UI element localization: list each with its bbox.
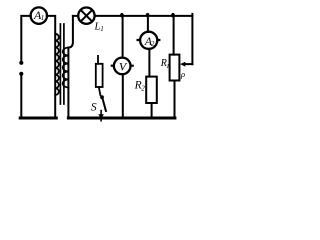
- fuse lead lower: [99, 87, 101, 95]
- wire V lower: [122, 74, 124, 118]
- svg-text:1: 1: [100, 25, 104, 33]
- switch S arrowhead: [98, 114, 104, 119]
- ammeter A1: [31, 7, 47, 23]
- wire R1 lower: [174, 81, 176, 119]
- wire right drop: [191, 14, 193, 64]
- fuse lead upper: [97, 56, 99, 64]
- wire left-top (terminal up to A1): [21, 16, 31, 61]
- svg-text:2: 2: [151, 40, 155, 48]
- fuse box: [96, 64, 103, 87]
- lamp L1: [78, 8, 94, 24]
- svg-text:S: S: [91, 101, 97, 113]
- transformer core: [59, 24, 61, 104]
- resistor R2: [146, 77, 157, 103]
- lamp L1 wire: [73, 15, 78, 17]
- svg-text:ρ: ρ: [180, 69, 185, 79]
- wiper arrowhead: [180, 62, 185, 67]
- wiper arrow shaft: [185, 63, 193, 65]
- switch S blade: [103, 99, 106, 111]
- node junction R1: [171, 13, 175, 18]
- switch S arrow shaft: [100, 111, 102, 121]
- wire V riser: [122, 16, 124, 58]
- terminal lower: [19, 72, 23, 76]
- wire R2 lower: [151, 103, 153, 118]
- ammeter A2 side nubs: [138, 39, 160, 41]
- svg-text:2: 2: [141, 85, 145, 93]
- transformer secondary coil lead + spine: [68, 16, 73, 118]
- terminal upper: [19, 61, 23, 65]
- wire A2 riser: [147, 16, 149, 32]
- transformer secondary coil: [63, 48, 69, 88]
- resistor R1: [170, 55, 180, 81]
- node junction A2: [146, 13, 150, 18]
- wire A2 to R2: [148, 49, 150, 77]
- voltmeter V side nubs: [112, 65, 133, 67]
- svg-text:1: 1: [41, 14, 45, 22]
- node junction V: [120, 13, 124, 18]
- voltmeter V: [114, 58, 131, 75]
- wire bottom right: [68, 117, 174, 120]
- wire bottom-left thick: [20, 117, 56, 120]
- transformer primary coil: [55, 34, 59, 95]
- wire R1 riser: [173, 16, 175, 55]
- wire top main: [95, 15, 193, 17]
- svg-text:1: 1: [166, 63, 169, 70]
- switch S hinge: [100, 95, 104, 99]
- ammeter A2: [140, 32, 157, 49]
- wire left-bottom + primary riser + bottom-left wire: [21, 16, 55, 118]
